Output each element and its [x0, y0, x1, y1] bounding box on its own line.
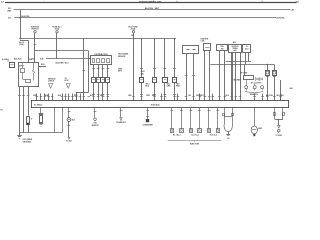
- ECM pin stub: [76, 94, 78, 102]
- wire igniter 1 down: [267, 75, 269, 101]
- ECM pin stub: [254, 94, 256, 102]
- resistor box R2 mark: [153, 79, 155, 81]
- wire jog down to ECM: [76, 92, 78, 101]
- wire ECM arrow branch: [120, 108, 122, 118]
- connector C210 symbol: [132, 31, 134, 33]
- wire jog horizontal: [76, 92, 89, 94]
- svg-text:(15A): (15A): [55, 28, 60, 31]
- wire interconnect drop 244.8: [244, 65, 246, 76]
- ECM pin tick top: [224, 96, 227, 98]
- svg-text:ECM: ECM: [65, 80, 69, 82]
- wire ECM blob branch: [147, 108, 149, 119]
- svg-text:SW: SW: [221, 48, 224, 50]
- distributor pin 3: [102, 59, 105, 63]
- injector No.4 symbol: [198, 129, 202, 133]
- wire distributor out 4: [107, 65, 109, 78]
- svg-text:ADJ: ADJ: [245, 48, 248, 51]
- ECM pin tick top: [261, 96, 264, 98]
- tick relay exit 1: [18, 95, 21, 97]
- resistor box R3 mark: [164, 79, 166, 81]
- ground G2 hatch: [39, 123, 43, 125]
- ECM pin tick top: [160, 96, 163, 98]
- ECM pin stub: [72, 94, 74, 102]
- wire below capacitor 1: [93, 82, 95, 101]
- wire ELD branch: [39, 66, 47, 68]
- ECM pin stub: [161, 94, 163, 102]
- wire comb drop 3: [164, 38, 166, 77]
- connector C415 symbol: [56, 31, 58, 33]
- ECM pin stub: [68, 94, 70, 102]
- wire box A out 1: [186, 54, 188, 101]
- svg-text:YEL: YEL: [188, 95, 191, 97]
- wire O2 right: [232, 108, 234, 125]
- ECM pin tick top: [177, 96, 180, 98]
- pin right pair A: [274, 113, 276, 116]
- tick distributor out 2: [97, 68, 100, 70]
- connector box B: [204, 44, 211, 51]
- ECM pin stub: [44, 94, 46, 102]
- tick D branch: [94, 111, 97, 113]
- svg-text:A26: A26: [290, 87, 293, 90]
- ECM pin tick top: [107, 96, 110, 98]
- ECM pin tick top: [64, 96, 67, 98]
- svg-text:1: 1: [40, 67, 41, 69]
- wire tachometer drop: [83, 38, 85, 101]
- wire into distributor: [46, 58, 91, 60]
- ECM pin tick top: [87, 96, 90, 98]
- svg-text:CONDENSER: CONDENSER: [142, 124, 153, 126]
- wire comb drop 1: [141, 38, 143, 77]
- resistor box R4: [173, 78, 177, 83]
- ECM pin tick top: [44, 96, 47, 98]
- svg-text:BLU/RED: BLU/RED: [234, 80, 242, 82]
- tick injector 2: [180, 110, 183, 112]
- ECM pin stub: [62, 94, 64, 102]
- svg-text:No.5 No.6: No.5 No.6: [210, 135, 217, 137]
- connector box C802: [10, 63, 15, 68]
- capacitor box 2 mark: [97, 79, 99, 81]
- tick injector 6: [216, 110, 219, 112]
- connector box E: [243, 45, 251, 53]
- wire diode to bus: [28, 125, 30, 133]
- wire below capacitor 3: [102, 82, 104, 101]
- tick box A out 1: [185, 75, 188, 77]
- ECM pin tick top: [102, 96, 105, 98]
- tick relay exit 3: [27, 95, 30, 97]
- wire ECU fuse down to ECM: [133, 33, 135, 101]
- ECM pin tick top: [83, 96, 86, 98]
- wire below capacitor 2: [98, 82, 100, 101]
- svg-text:INJECTORS: INJECTORS: [190, 143, 200, 145]
- top border line: [5, 2, 297, 4]
- ECM pin tick top: [192, 96, 195, 98]
- box B mark: [205, 47, 209, 49]
- wire interconnect upper: [226, 61, 251, 63]
- wire ECM A26 down: [54, 108, 56, 133]
- tick injector 3: [190, 110, 193, 112]
- tick injector 1: [171, 110, 174, 112]
- ECM pin tick top: [279, 96, 282, 98]
- svg-text:SENSOR: SENSOR: [92, 125, 100, 127]
- ECM pin stub: [280, 94, 282, 102]
- junction fuse drop: [19, 38, 20, 39]
- capacitor box 4 mark: [107, 79, 109, 81]
- capacitor C1 plates: [39, 113, 43, 115]
- connector C731 symbol: [34, 31, 36, 33]
- ECM pin tick top: [239, 96, 242, 98]
- capacitor C1 body: [40, 116, 43, 123]
- main relay coil stub: [22, 63, 24, 68]
- ECM pin tick top: [75, 96, 78, 98]
- wire box D out 3: [240, 53, 242, 102]
- ECM pin stub: [40, 94, 42, 102]
- tick below resistor 3: [164, 94, 167, 96]
- tick comb drop 2: [153, 68, 156, 70]
- svg-text:BLK/YEL: BLK/YEL: [277, 18, 286, 20]
- wire below resistor 1: [141, 82, 143, 101]
- wire box D out 2: [235, 53, 237, 102]
- ECM connector strip: [32, 101, 289, 108]
- wire box C out 1: [219, 51, 221, 101]
- wire right vertical 232: [232, 53, 234, 102]
- svg-text:GROUND): GROUND): [23, 141, 32, 143]
- wire right pair A: [274, 108, 276, 120]
- tick injector 5: [208, 110, 211, 112]
- svg-text:(10A): (10A): [19, 43, 24, 46]
- tick blob branch 2: [146, 116, 149, 118]
- wire box E out: [245, 53, 247, 65]
- connector box C802 mark: [10, 64, 13, 66]
- resistor box R4 mark: [173, 79, 175, 81]
- capacitor box 1 mark: [93, 79, 95, 81]
- svg-text:BLK W-B: BLK W-B: [14, 58, 22, 60]
- O2 sensor flask: [224, 125, 232, 132]
- svg-text:IGNITION: IGNITION: [232, 46, 240, 48]
- ECM pin stub: [52, 94, 54, 102]
- ECM pin tick top: [61, 96, 64, 98]
- wire igniter 1 feed: [267, 65, 269, 71]
- distributor pin 1: [93, 59, 95, 63]
- main relay contact 2: [26, 80, 31, 83]
- wire hot-at-all-times rail: [14, 9, 291, 11]
- ECM pin tick top: [204, 96, 207, 98]
- tick alternator lower: [68, 125, 71, 127]
- tick distributor out 3: [102, 68, 105, 70]
- svg-text:YEL: YEL: [141, 73, 144, 75]
- igniter unit 1: [266, 71, 270, 76]
- ECM pin stub: [36, 94, 38, 102]
- wire alternator lower: [68, 122, 70, 138]
- wire box C out 2: [224, 51, 226, 101]
- ECM pin tick top: [266, 96, 269, 98]
- diode D1 on relay wire: [27, 117, 30, 125]
- ECM pin stub: [262, 94, 264, 102]
- MAP lower mark: [253, 134, 255, 136]
- right connector symbol: [278, 129, 281, 132]
- wire flask tie: [224, 116, 232, 118]
- tick arrow branch: [120, 110, 123, 112]
- igniter unit 2: [273, 71, 277, 76]
- svg-text:A/C · CLUTCH: A/C · CLUTCH: [251, 82, 263, 85]
- D branch connector: [94, 118, 97, 121]
- alternator connector symbol: [67, 118, 71, 122]
- wire injector 5: [208, 108, 210, 129]
- tick below capacitor 4: [107, 94, 110, 96]
- ECM pin tick top: [97, 96, 100, 98]
- wire injector 2: [181, 108, 183, 129]
- injector No.3 symbol: [190, 129, 193, 133]
- tick below capacitor 1: [92, 94, 95, 96]
- ECM pin tick top: [208, 96, 211, 98]
- tick tachometer drop: [82, 70, 85, 72]
- switch circle 2: [253, 86, 256, 89]
- injector No.5 symbol: [208, 129, 211, 133]
- capacitor box 4: [106, 78, 110, 83]
- MAP sensor circle: [251, 126, 257, 134]
- blob connector: [146, 119, 149, 122]
- svg-text:A1 A8 A12: A1 A8 A12: [34, 104, 42, 107]
- resistor box R2: [153, 78, 157, 83]
- tick below resistor 4: [173, 94, 176, 96]
- wire comb drop 4: [174, 38, 176, 77]
- svg-text:A-2 BLU: A-2 BLU: [2, 58, 9, 61]
- svg-text:TO FUEL: TO FUEL: [275, 135, 282, 137]
- injector No.2 symbol: [180, 129, 184, 133]
- wire box D out 1: [231, 53, 233, 102]
- wire fuse jog horizontal: [20, 40, 28, 42]
- connector box D: [229, 45, 242, 53]
- ECM pin tick top: [185, 96, 188, 98]
- svg-text:CHECK: CHECK: [48, 80, 55, 82]
- wire injector 3: [190, 108, 192, 129]
- ECM pin tick top: [132, 96, 135, 98]
- ECM pin tick top: [47, 96, 50, 98]
- ECM pin tick top: [153, 96, 156, 98]
- resistor box R1 mark: [140, 79, 142, 81]
- tick box A out 2: [192, 75, 195, 77]
- capacitor box 3: [101, 78, 105, 83]
- ECM pin tick top: [235, 96, 238, 98]
- wire long distribution line: [20, 38, 176, 40]
- main relay contact 1: [33, 63, 35, 71]
- tick on ignition wire: [34, 44, 37, 46]
- wire ECM A23 down: [62, 108, 64, 133]
- main relay contact1 lower stub: [33, 77, 35, 81]
- tick distributor out 4: [107, 68, 110, 70]
- capacitor box 1: [92, 78, 96, 83]
- wire right pair B: [282, 108, 284, 120]
- ECM pin stub: [80, 94, 82, 102]
- wire relay exit 3 to diode: [28, 87, 30, 116]
- ECM pin tick top: [164, 96, 167, 98]
- wire below resistor 2: [154, 82, 156, 101]
- wire from fuse No.1 down: [56, 33, 58, 59]
- switch circle 3: [261, 86, 264, 89]
- ECM pin tick top: [68, 96, 71, 98]
- ECM pin stub: [177, 94, 179, 102]
- tick relay exit 2: [22, 95, 25, 97]
- ECM pin stub: [199, 94, 201, 102]
- ECM pin tick top: [212, 96, 215, 98]
- ECM pin tick top: [92, 96, 95, 98]
- wire interconnect lower: [210, 64, 274, 66]
- pin O2 right: [232, 114, 234, 116]
- wire right vertical 280: [280, 80, 282, 101]
- wire below resistor 4: [174, 82, 176, 101]
- wire box A out 2: [193, 54, 195, 101]
- tick below resistor 2: [153, 94, 156, 96]
- alternator arrow: [68, 137, 70, 139]
- tick below capacitor 3: [102, 94, 105, 96]
- tick comb drop 3: [164, 68, 167, 70]
- wire ECM to alternator: [68, 108, 70, 118]
- wire injector 6: [217, 108, 219, 129]
- wire igniter 2 feed: [274, 65, 276, 71]
- wire distributor drop vertical: [88, 51, 90, 92]
- ECM pin tick top: [273, 96, 276, 98]
- capacitor box 2: [97, 78, 101, 83]
- pin right pair B: [283, 113, 285, 116]
- ECM pin stub: [65, 94, 67, 102]
- wire MAP sensor: [254, 108, 256, 127]
- diode symbol 2: [259, 78, 262, 81]
- O2 ground hatch: [226, 134, 230, 136]
- svg-text:No.1 No.2: No.1 No.2: [173, 135, 180, 137]
- distributor box: [91, 56, 112, 65]
- tick below capacitor 2: [97, 94, 100, 96]
- main relay internal wire: [22, 72, 24, 79]
- injector bracket: [168, 140, 222, 142]
- wire ignition rail: [15, 17, 277, 19]
- svg-text:BLK/YEL · WHT: BLK/YEL · WHT: [145, 8, 160, 10]
- svg-text:B1: B1: [1, 109, 3, 111]
- ECM pin tick top: [253, 96, 256, 98]
- wire relay exit 1: [19, 87, 21, 133]
- svg-text:SENSOR: SENSOR: [118, 56, 126, 58]
- wire relay exit 2: [23, 87, 25, 133]
- tick injector 4: [198, 110, 201, 112]
- connector box A pins: [187, 49, 190, 51]
- resistor box R1: [140, 78, 144, 83]
- arrow branch head: [120, 118, 122, 121]
- tick distributor out 1: [92, 68, 95, 70]
- distributor pin 4: [107, 59, 110, 63]
- junction rail2 crossing: [19, 17, 21, 19]
- svg-text:TO MAIN RLY: TO MAIN RLY: [116, 121, 127, 124]
- connector box F: [244, 76, 254, 80]
- wire right single down: [278, 119, 280, 125]
- wire box B out 1: [204, 51, 206, 101]
- wire injector 4: [199, 108, 201, 129]
- wire below capacitor 4: [107, 82, 109, 101]
- svg-text:No.3 No.4: No.3 No.4: [191, 134, 198, 137]
- wire injector 1: [171, 108, 173, 129]
- switch circle 1: [245, 86, 248, 89]
- wire below resistor 3: [164, 82, 166, 101]
- resistor box R3: [163, 78, 168, 83]
- svg-text:O2: O2: [227, 138, 229, 140]
- diode symbol 1: [255, 78, 258, 81]
- wire box E to interconnect: [248, 53, 250, 62]
- connector box A (2P): [183, 46, 199, 54]
- wire box B out 2: [209, 51, 211, 101]
- distributor pin 2: [97, 59, 100, 63]
- callout triangle service check: [49, 83, 53, 88]
- ECM pin tick top: [199, 96, 202, 98]
- ECM pin tick top: [140, 96, 143, 98]
- ECM pin tick top: [230, 96, 233, 98]
- ECM pin tick top: [36, 96, 39, 98]
- callout triangle data link: [66, 83, 70, 88]
- wire to switch circle 1: [246, 80, 248, 86]
- wire igniter 2 down: [274, 75, 276, 101]
- junction interconnect igniter1: [267, 64, 268, 65]
- ECM pin tick top: [40, 96, 43, 98]
- right arrow head: [278, 125, 281, 128]
- brace under circles: [245, 91, 263, 92]
- wire across to distributor drop: [35, 50, 89, 52]
- tick comb drop 4: [173, 68, 176, 70]
- ECM pin tick top: [79, 96, 82, 98]
- svg-text:TIMING: TIMING: [232, 48, 238, 50]
- wire O2 left: [224, 108, 226, 125]
- wire from ignition switch down: [34, 33, 36, 51]
- ground G101 symbol: [19, 133, 21, 136]
- wire ECM D branch: [94, 108, 96, 118]
- injector No.6 symbol: [217, 129, 220, 133]
- wire to switch circle 2: [254, 83, 256, 86]
- wire distributor out 3: [102, 65, 104, 78]
- injector No.1 symbol: [171, 129, 174, 133]
- ECM pin tick top: [71, 96, 74, 98]
- svg-text:BLU/GRN · BLU: BLU/GRN · BLU: [56, 62, 70, 64]
- tick blob branch 1: [146, 110, 149, 112]
- pin O2 left: [223, 114, 225, 116]
- svg-text:BLK/YEL: BLK/YEL: [21, 16, 30, 18]
- ECM pin stub: [48, 94, 50, 102]
- main relay box: [19, 63, 39, 87]
- ECM pin tick top: [173, 96, 176, 98]
- svg-text:(15A): (15A): [131, 28, 136, 31]
- ground bus horizontal: [20, 132, 63, 134]
- connector box C: [217, 45, 228, 51]
- tick comb drop 1: [140, 68, 143, 70]
- wire fuse jog vertical to main relay: [28, 40, 30, 63]
- wire fuse drop from rail1: [20, 10, 22, 40]
- ECM pin tick top: [51, 96, 54, 98]
- ECM pin stub: [212, 94, 214, 102]
- wire right pair merge: [275, 119, 283, 121]
- tick alternator wire: [68, 111, 71, 113]
- capacitor C1 wire: [40, 108, 42, 114]
- main relay coil: [21, 69, 25, 73]
- wire relay entry from ignition switch: [34, 51, 36, 63]
- svg-text:ECM (A-B): ECM (A-B): [151, 103, 160, 106]
- wire distributor out 2: [98, 65, 100, 78]
- O2 sensor stem: [228, 132, 230, 135]
- wire distributor out 1: [93, 65, 95, 78]
- wire comb drop 2: [154, 38, 156, 77]
- ECM pin tick top: [218, 96, 221, 98]
- tick below resistor 1: [140, 94, 143, 96]
- capacitor box 3 mark: [102, 79, 104, 81]
